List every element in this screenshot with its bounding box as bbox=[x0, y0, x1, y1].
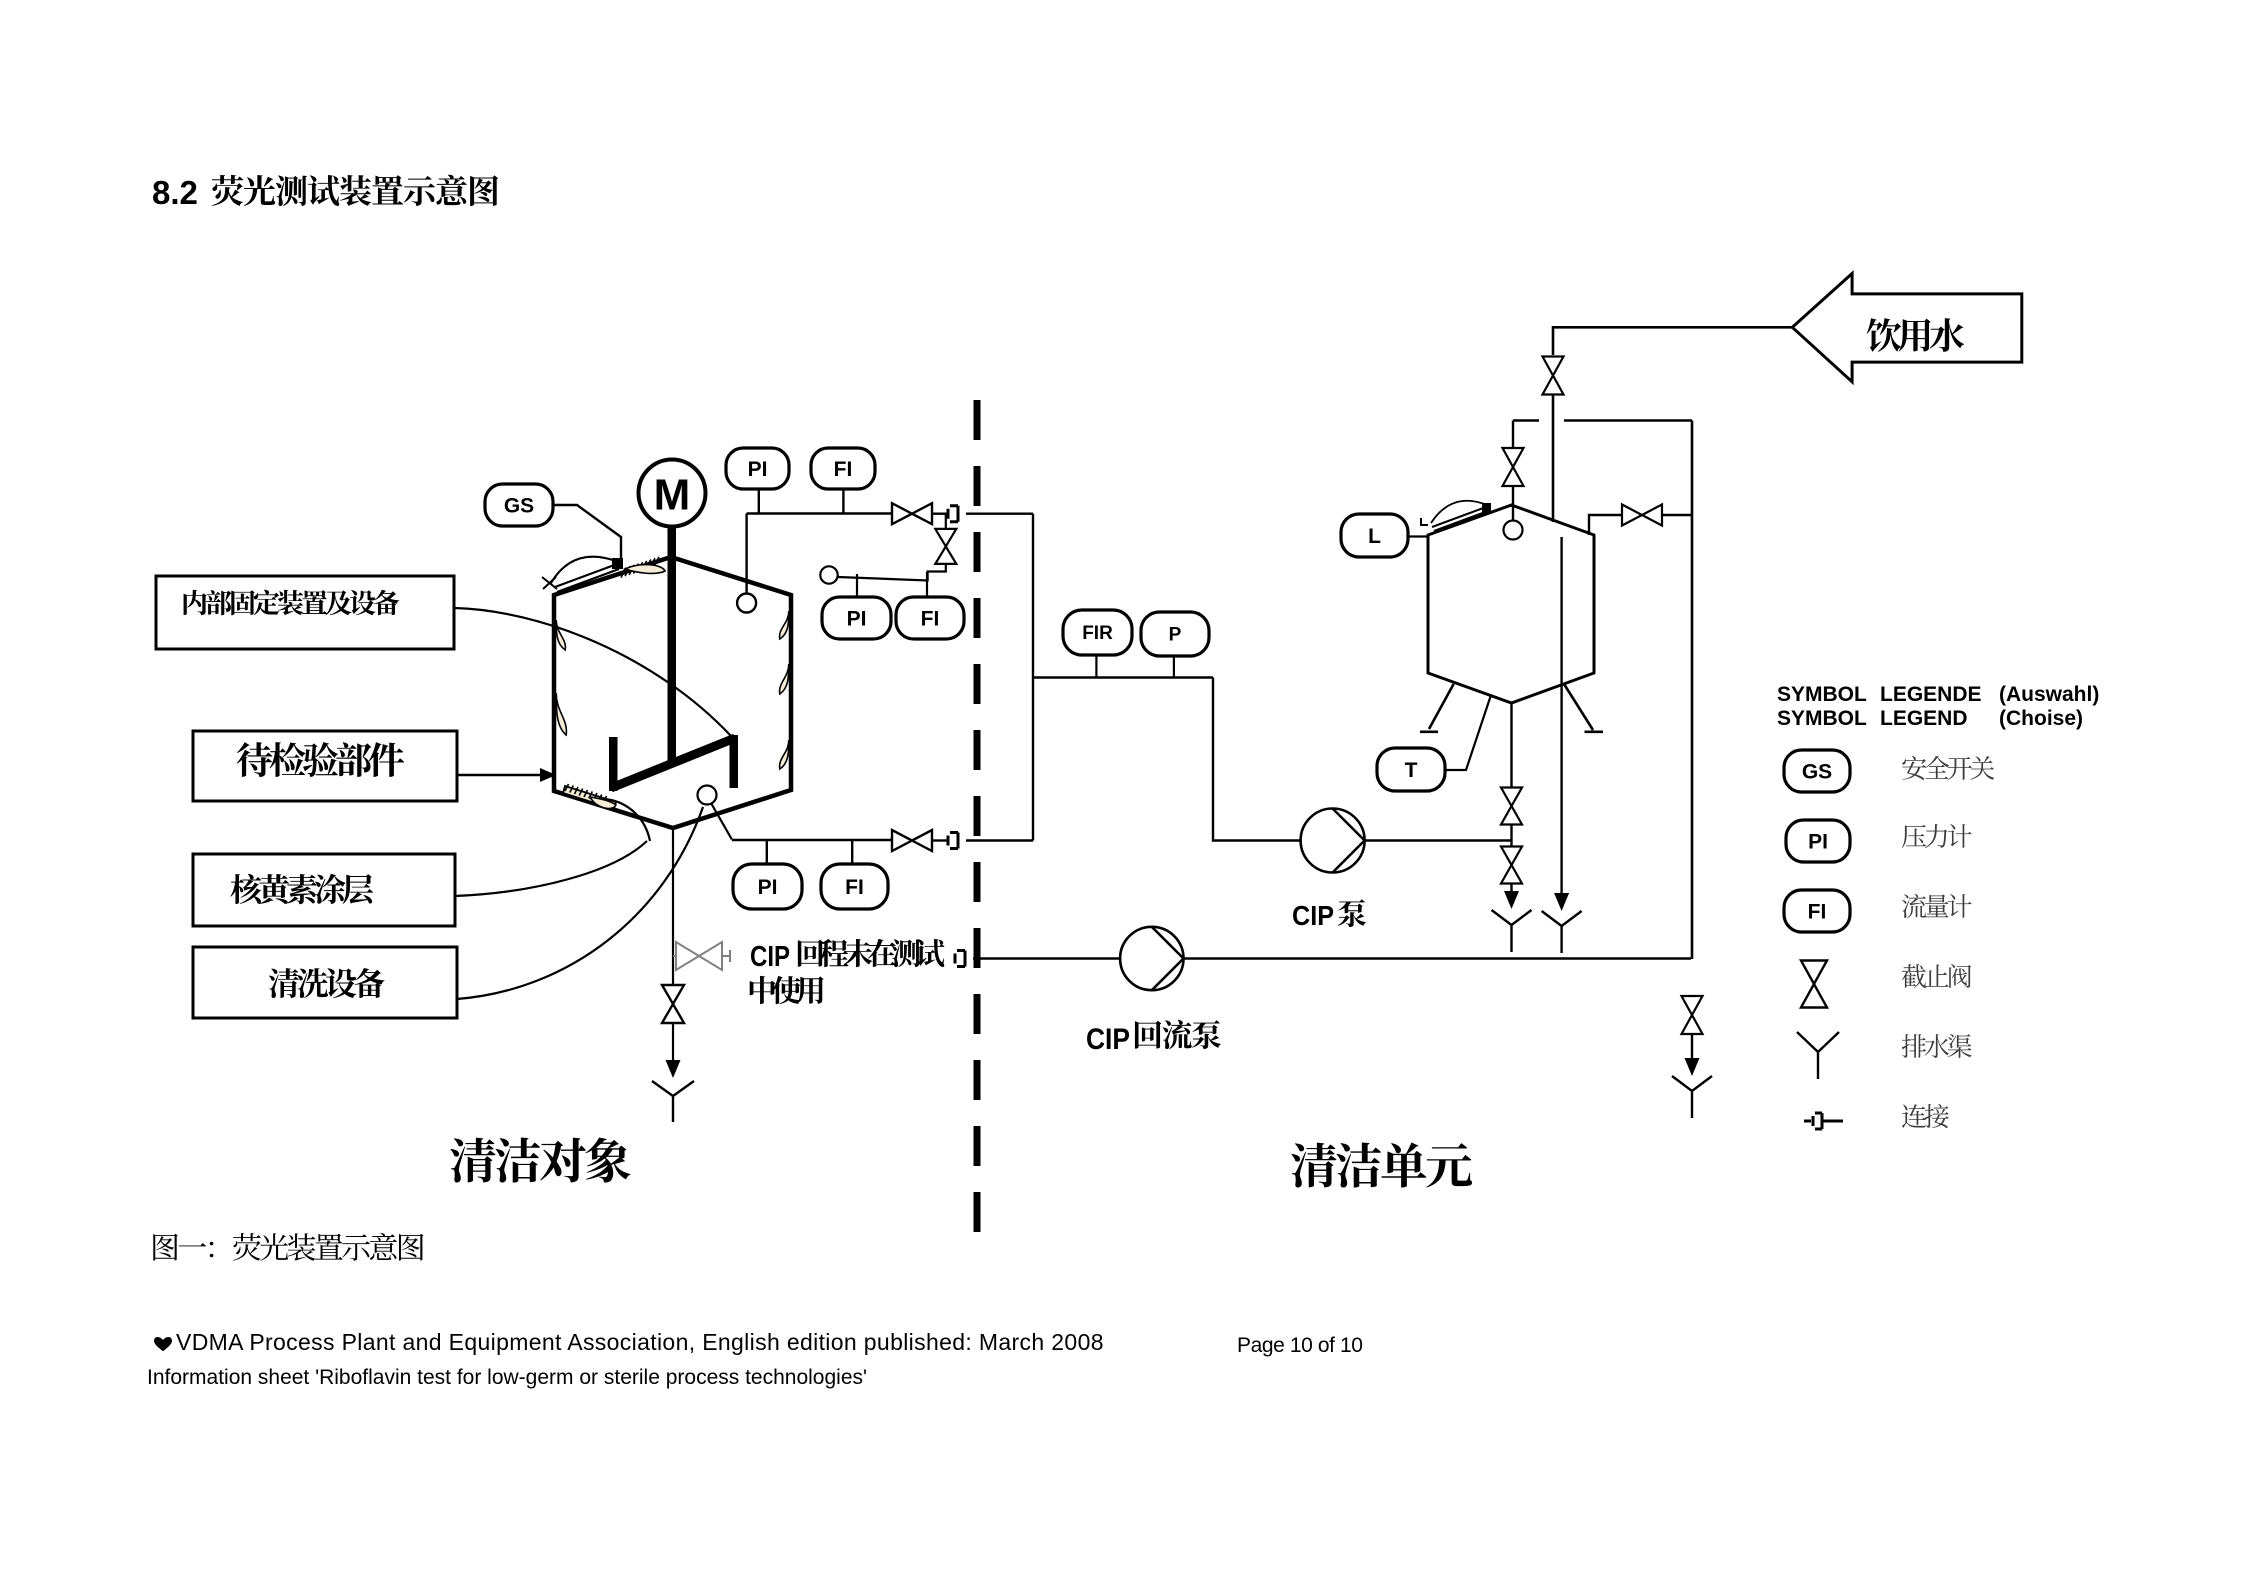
CIP tank lid hinge dot bbox=[1482, 503, 1491, 512]
floor drain center bbox=[1542, 911, 1582, 953]
note CIP return line 2 bbox=[750, 976, 824, 1004]
stub valve to header bbox=[1512, 421, 1514, 449]
riboflavin drop on bottom slope bbox=[590, 797, 616, 808]
figure caption bbox=[153, 1233, 423, 1261]
top header left segment bbox=[1513, 419, 1539, 421]
lid clamp x-mark bbox=[542, 577, 557, 589]
FI mid stem bbox=[926, 572, 928, 597]
svg-text:Page 10 of 10: Page 10 of 10 bbox=[1237, 1334, 1363, 1357]
GS signal line bbox=[553, 505, 621, 563]
legend GS symbol bbox=[1784, 750, 1850, 792]
svg-text:LEGENDE: LEGENDE bbox=[1880, 683, 1982, 706]
FI bottom stem bbox=[851, 840, 853, 864]
outlet drain arrow bbox=[1504, 891, 1519, 909]
svg-text:GS: GS bbox=[1802, 761, 1832, 784]
CIP tank outlet bbox=[1510, 703, 1512, 788]
drinking water arrow bbox=[1792, 274, 2022, 382]
pipe pump to tank outlet bbox=[1365, 839, 1512, 841]
flow recorder FIR bbox=[1063, 610, 1132, 655]
valve vessel drain bbox=[662, 985, 684, 1023]
wall drop R2 bbox=[780, 664, 789, 694]
svg-text:FI: FI bbox=[834, 458, 853, 481]
pressure indicator PI bottom bbox=[733, 864, 802, 909]
label text riboflavin coating bbox=[230, 874, 373, 904]
riboflavin drop on top slope bbox=[625, 565, 665, 574]
connection top bbox=[948, 506, 958, 522]
label drinking water bbox=[1867, 318, 1964, 352]
label text part under test bbox=[237, 742, 405, 777]
bypass stub bbox=[945, 514, 947, 529]
agitator right blade bbox=[730, 735, 739, 788]
valve top supply bbox=[892, 503, 932, 524]
safety switch GS bubble bbox=[485, 484, 553, 526]
riser to drain bbox=[1691, 1034, 1693, 1060]
vent line bbox=[1589, 515, 1692, 535]
CIP tank inlet stub bbox=[1512, 486, 1514, 521]
drop tube arrow bbox=[1554, 893, 1569, 911]
top header right segment bbox=[1564, 419, 1692, 421]
leader curve internal fixtures bbox=[454, 608, 731, 736]
legend GS label bbox=[1902, 756, 1994, 780]
PI top stem bbox=[758, 489, 760, 514]
legend valve label bbox=[1902, 964, 1971, 988]
valve bottom return bbox=[892, 830, 932, 851]
CIP tank left leg bbox=[1420, 684, 1454, 732]
valve CIP return greyed bbox=[673, 955, 676, 957]
level indicator L bbox=[1341, 514, 1408, 557]
drain line below valve bbox=[672, 1023, 674, 1062]
svg-text:FIR: FIR bbox=[1082, 623, 1113, 644]
right riser bbox=[1691, 421, 1694, 960]
floor drain tank bbox=[1492, 910, 1532, 952]
drain arrow bbox=[666, 1060, 681, 1078]
legend FI label bbox=[1902, 894, 1972, 918]
CIP tank lid tick bbox=[1421, 518, 1428, 525]
FIR stem bbox=[1095, 655, 1097, 678]
valve above CIP tank bbox=[1503, 448, 1524, 486]
svg-text:PI: PI bbox=[847, 608, 867, 631]
label box cleaning device bbox=[193, 947, 457, 1018]
CIP tank bbox=[1428, 505, 1594, 703]
leader curve cleaning device bbox=[457, 807, 703, 999]
vessel drain line bbox=[672, 828, 674, 985]
label box part under test bbox=[193, 731, 457, 801]
legend connection label bbox=[1902, 1104, 1949, 1128]
wall drop L1 bbox=[556, 620, 565, 650]
wall drop R1 bbox=[780, 611, 789, 639]
svg-text:FI: FI bbox=[921, 608, 940, 631]
flow indicator FI bottom bbox=[821, 864, 888, 909]
svg-text:(Auswahl): (Auswahl) bbox=[1999, 683, 2099, 706]
label box riboflavin coating bbox=[193, 854, 455, 926]
svg-text:PI: PI bbox=[758, 876, 778, 899]
flow indicator FI top bbox=[811, 448, 875, 489]
floor drain left bbox=[652, 1081, 694, 1122]
valve drinking water bbox=[1543, 357, 1564, 395]
pump CIP bbox=[1301, 809, 1365, 873]
bottom pipe bbox=[732, 839, 892, 841]
valve bypass vertical bbox=[935, 529, 956, 564]
internal drop tube bbox=[1560, 537, 1562, 897]
CIP tank nozzle circle bbox=[1504, 521, 1523, 540]
pipe bottom connection to unit bbox=[966, 839, 1033, 841]
lid hinge dot bbox=[612, 558, 623, 569]
vessel V1 (cleaning object tank) bbox=[554, 557, 791, 828]
CIP tank lid slab bbox=[1432, 507, 1488, 531]
bottom flange hatching bbox=[565, 784, 607, 803]
svg-text:(Choise): (Choise) bbox=[1999, 707, 2083, 730]
valve tank outlet bbox=[1501, 788, 1522, 825]
drinking water down pipe bbox=[1552, 394, 1555, 522]
pipe valve to connection bbox=[932, 513, 948, 515]
riser drain arrow bbox=[1685, 1058, 1700, 1076]
svg-text:CIP: CIP bbox=[750, 941, 790, 973]
svg-text:Information sheet 'Riboflavin: Information sheet 'Riboflavin test for l… bbox=[147, 1366, 867, 1389]
svg-text:PI: PI bbox=[1808, 831, 1828, 854]
pressure indicator PI top bbox=[726, 448, 789, 489]
CIP tank right leg bbox=[1564, 684, 1603, 732]
header drop line bbox=[1213, 678, 1301, 841]
top manway lid slab bbox=[555, 564, 619, 592]
pipe connection to unit bbox=[966, 513, 1033, 515]
FI top stem bbox=[842, 489, 844, 514]
svg-text:CIP: CIP bbox=[1292, 900, 1334, 931]
caption cleaning unit bbox=[1291, 1142, 1472, 1187]
PI mid stem bbox=[856, 574, 858, 597]
temperature indicator T bbox=[1377, 748, 1445, 791]
leader curve riboflavin coating bbox=[455, 841, 647, 896]
top pipe bbox=[747, 512, 892, 514]
legend drain label bbox=[1902, 1034, 1972, 1058]
top nozzle circle bbox=[737, 594, 756, 613]
agitator crossbar bbox=[611, 738, 735, 788]
svg-text:FI: FI bbox=[1808, 901, 1827, 924]
dashed boundary line bbox=[974, 400, 981, 1232]
drinking water line bbox=[1553, 327, 1792, 355]
svg-text:P: P bbox=[1169, 625, 1182, 646]
pressure transmitter P bbox=[1141, 612, 1209, 656]
svg-text:T: T bbox=[1405, 759, 1418, 782]
top flange hatching bbox=[621, 557, 659, 578]
pipe to bottom connection bbox=[932, 839, 948, 841]
bottom nozzle circle bbox=[698, 786, 717, 805]
L connector bbox=[1408, 535, 1428, 537]
vent circle bbox=[820, 566, 837, 583]
svg-text:GS: GS bbox=[504, 495, 534, 518]
wall drop R3 bbox=[780, 740, 789, 769]
legend drain symbol bbox=[1797, 1032, 1839, 1079]
agitator shaft bbox=[668, 527, 677, 761]
label text internal fixtures bbox=[184, 590, 400, 615]
instrument header line bbox=[1033, 676, 1213, 678]
legend valve symbol bbox=[1801, 961, 1827, 1008]
svg-text:L: L bbox=[1368, 525, 1381, 548]
legend PI label bbox=[1902, 824, 1972, 848]
valve outlet drain bbox=[1501, 847, 1522, 884]
svg-text:LEGEND: LEGEND bbox=[1880, 707, 1968, 730]
label box internal fixtures bbox=[156, 576, 454, 649]
PI bottom stem bbox=[766, 840, 768, 864]
caption cleaning object bbox=[450, 1137, 630, 1182]
legend PI symbol bbox=[1786, 820, 1850, 862]
P stem bbox=[1173, 656, 1175, 678]
top nozzle dip line bbox=[745, 514, 747, 595]
svg-text:CIP: CIP bbox=[1086, 1023, 1130, 1056]
riser bottom valve bbox=[1682, 996, 1703, 1034]
svg-text:FI: FI bbox=[845, 876, 864, 899]
outlet drain stub bbox=[1510, 883, 1512, 893]
leader arrow part under test bbox=[457, 774, 540, 776]
svg-text:SYMBOL: SYMBOL bbox=[1777, 683, 1867, 706]
bottom flange line bbox=[563, 786, 616, 809]
svg-text:SYMBOL: SYMBOL bbox=[1777, 707, 1867, 730]
label text cleaning device bbox=[269, 968, 385, 998]
motor M1 bbox=[639, 460, 706, 527]
agitator left blade bbox=[609, 737, 618, 791]
connection bottom bbox=[948, 833, 958, 849]
svg-text:M: M bbox=[654, 471, 691, 520]
wall drop L2 bbox=[556, 693, 566, 735]
footer heart bbox=[154, 1337, 172, 1351]
bypass lower line bbox=[838, 564, 946, 581]
T connector bbox=[1445, 695, 1491, 770]
heading title bbox=[212, 175, 499, 206]
connector vertical at boundary bbox=[1032, 514, 1034, 841]
legend FI symbol bbox=[1784, 890, 1850, 932]
connection CIP return bbox=[955, 951, 965, 967]
svg-text:VDMA Process Plant and Equipme: VDMA Process Plant and Equipment Associa… bbox=[176, 1329, 1104, 1355]
svg-text:8.2: 8.2 bbox=[152, 174, 198, 211]
pressure indicator PI mid bbox=[822, 597, 891, 639]
bottom manway lid arc bbox=[603, 799, 650, 841]
CIP tank lid arc bbox=[1431, 501, 1487, 523]
flow indicator FI mid bbox=[896, 597, 964, 639]
outlet mid line bbox=[1510, 824, 1512, 847]
valve vent bbox=[1622, 505, 1662, 526]
top manway lid arc bbox=[551, 557, 616, 583]
svg-text:PI: PI bbox=[748, 458, 768, 481]
floor drain right bbox=[1672, 1076, 1712, 1118]
legend connection symbol bbox=[1804, 1113, 1843, 1129]
pump CIP return bbox=[1120, 927, 1183, 990]
bottom nozzle leg bbox=[711, 803, 732, 839]
CIP return pipe bbox=[973, 957, 1691, 960]
